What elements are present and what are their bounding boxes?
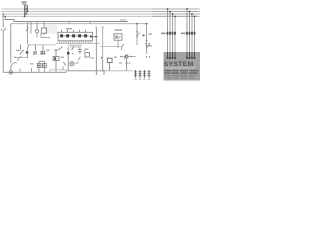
svg-text:SYSTEM: SYSTEM — [164, 61, 194, 68]
